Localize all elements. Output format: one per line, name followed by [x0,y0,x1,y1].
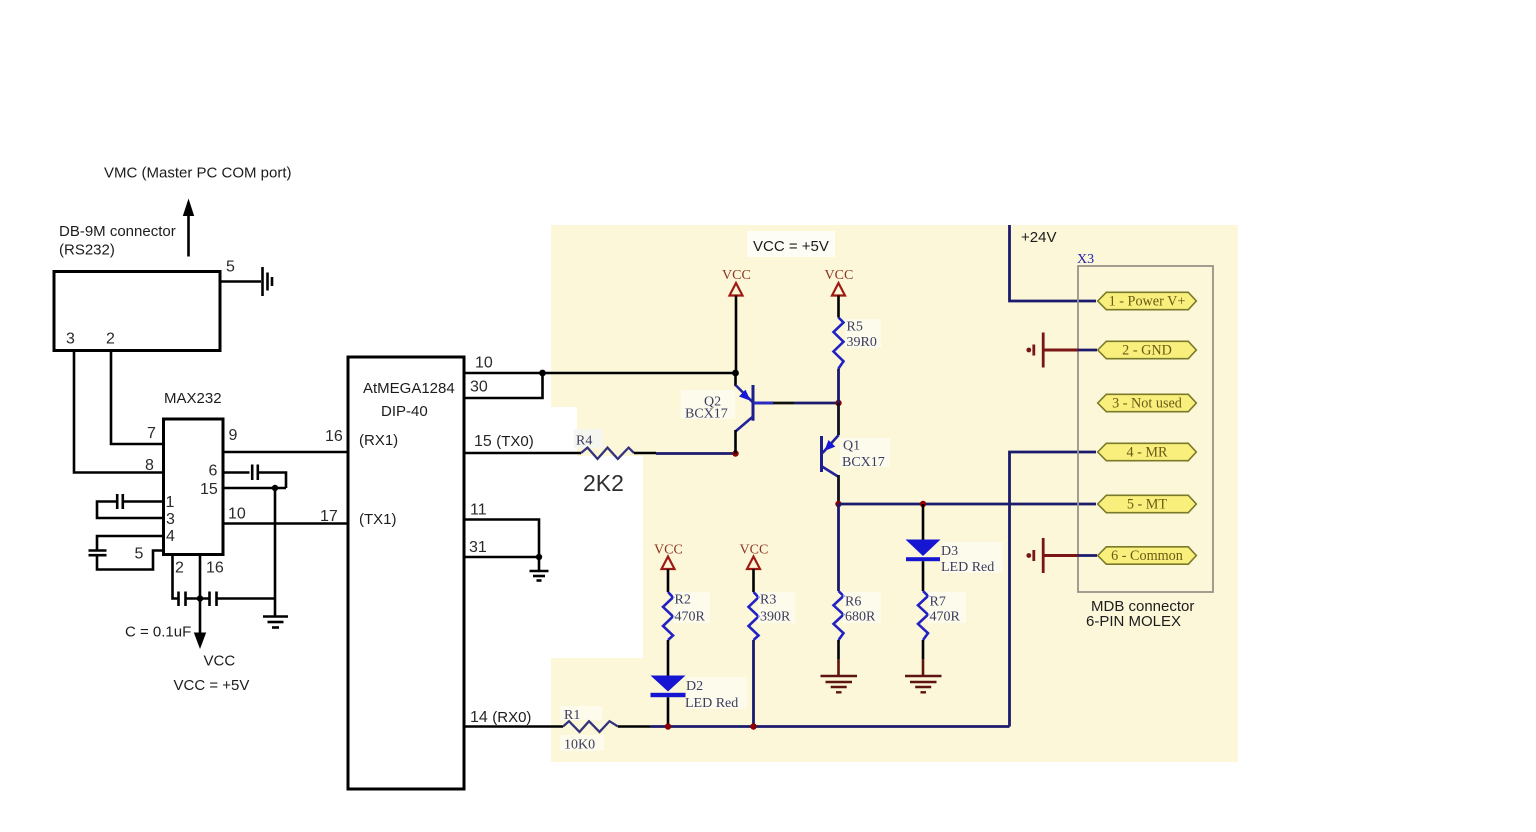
svg-text:14 (RX0): 14 (RX0) [470,709,531,726]
svg-text:C = 0.1uF: C = 0.1uF [125,624,191,641]
arrow to VMC [183,199,194,257]
svg-text:30: 30 [470,379,488,396]
annotation VCC = +5V (top) [747,231,835,257]
VCC down arrow (MAX232 supply) [194,599,206,650]
wire DB9 pin5 to ground [220,280,261,283]
MDB pin 4 MR [1098,443,1197,460]
LED D2 [651,676,686,727]
svg-text:470R: 470R [930,610,961,625]
svg-text:7: 7 [147,425,156,442]
power VCC symbol (Q2) [722,268,751,296]
resistor R5 [834,318,844,369]
wire Q2 base to node A [754,402,773,405]
wire to ground [274,488,277,616]
power VCC symbol (R2) [654,543,683,570]
wire Q1 collector to node C [837,475,840,504]
svg-text:MAX232: MAX232 [164,390,222,407]
transistor Q2 BCX17 [736,385,754,454]
svg-text:VCC: VCC [825,268,854,283]
svg-text:16: 16 [325,428,343,445]
wire cap row [186,597,210,600]
svg-text:(RX1): (RX1) [359,432,398,449]
wire cap row to ground rail [217,597,276,600]
svg-text:VCC: VCC [204,653,236,670]
svg-text:9: 9 [229,427,238,444]
wire AtMEGA pin10 to Q2 node [464,372,736,375]
power VCC symbol (R3) [740,543,769,570]
wire MAX232 pin10 to AtMEGA pin17 [223,522,348,525]
wire AtMEGA pin30 loop [464,373,543,398]
wire R2 to D2 [667,640,670,676]
LED D3 [906,504,941,591]
wire R7 to ground [922,640,925,659]
wire pin6 cap elbow [258,473,286,489]
svg-text:D2: D2 [686,679,703,694]
svg-text:5: 5 [135,546,144,563]
wire node C to R6 [837,504,840,591]
resistor R3 [749,592,759,640]
svg-text:R4: R4 [576,434,592,449]
value label R1 [560,706,602,720]
svg-text:3 - Not used: 3 - Not used [1112,396,1182,412]
wire MAX232 pin1 loop [123,500,164,503]
MDB pin 2 GND [1098,341,1197,358]
svg-text:Q1: Q1 [843,439,860,454]
wire DB9 pin2 to MAX232 pin7 [111,351,164,445]
connector DB-9M [54,272,220,351]
value label R5 [845,319,881,348]
wire VCC to R2 [667,569,670,592]
svg-text:5: 5 [226,259,235,276]
label Q2 [681,390,735,419]
resistor R2 [663,592,673,640]
ground (MAX232 pin15) [263,617,288,628]
wire MAX232 pin6 [223,471,250,474]
svg-text:2K2: 2K2 [583,470,624,496]
wire Q2 emitter lead [734,373,737,386]
ground (R7) [905,676,942,692]
capacitor C2 (pins 4-5) [89,551,107,556]
yellow highlight region [551,225,1238,762]
MDB pin 3 Not used [1098,394,1197,411]
wire bottom rail to MR riser [650,725,1010,728]
svg-text:X3: X3 [1077,252,1094,267]
svg-text:LED Red: LED Red [941,560,994,575]
svg-text:8: 8 [145,457,154,474]
connector X3 outline [1078,266,1213,592]
svg-text:15: 15 [200,481,218,498]
power VCC symbol (R5) [825,268,854,296]
svg-text:+24V: +24V [1021,229,1056,246]
wire R4 to node B [656,452,736,455]
svg-text:10: 10 [475,355,493,372]
svg-text:R2: R2 [675,593,691,608]
capacitor C3 (pin2 bottom) [179,592,186,607]
junction dot pins 10/30 [539,370,546,377]
svg-text:R7: R7 [930,595,946,610]
junction dot pin16/VCC [197,595,203,601]
svg-text:6: 6 [209,463,218,480]
svg-text:4: 4 [166,528,175,545]
svg-text:11: 11 [470,502,487,519]
svg-text:680R: 680R [845,610,876,625]
svg-text:17: 17 [320,508,338,525]
wire AtMEGA pin11 loop [464,520,539,558]
wire MAX232 pin4 loop [97,536,164,550]
wire MAX232 pin2 down [173,555,179,599]
svg-text:VCC = +5V: VCC = +5V [174,677,250,694]
resistor R1 [563,721,618,732]
node B junction dot [732,450,738,456]
wire AtMEGA pin15 TX0 to R4 [464,452,581,455]
wire VCC to R5 [837,296,840,318]
wire R3 to bottom rail [752,640,755,727]
svg-text:4 - MR: 4 - MR [1127,445,1169,461]
resistor R4 [581,448,634,459]
wire riser to MDB pin 4 MR [1010,452,1097,727]
svg-text:VCC = +5V: VCC = +5V [753,238,829,255]
MDB pin 1 Power V+ [1098,292,1197,309]
svg-text:(TX1): (TX1) [359,511,397,528]
svg-text:R6: R6 [845,595,861,610]
resistor R7 [918,591,928,640]
svg-text:DIP-40: DIP-40 [381,403,428,420]
svg-text:1: 1 [166,494,175,511]
wire R1 right (black part) [618,725,650,728]
wire +24V feed [1010,225,1097,301]
ground (DB9 pin 5) [263,267,273,296]
junction dot pin15 [272,485,278,491]
svg-text:1 - Power V+: 1 - Power V+ [1109,294,1186,310]
capacitor C1 (pins 1-3) [117,494,123,509]
svg-text:R1: R1 [564,708,580,723]
label D2 [687,677,747,709]
svg-text:31: 31 [469,539,487,556]
ground (MDB pin 2) [1026,333,1097,368]
capacitor C4 (pin16 bottom) [210,592,217,607]
svg-text:VMC (Master PC COM port): VMC (Master PC COM port) [104,165,292,182]
wire R5 to node A [837,369,840,404]
svg-text:D3: D3 [941,544,958,559]
resistor R6 [834,591,844,640]
wire node A to Q1 emitter [837,403,840,435]
transistor Q1 BCX17 [822,435,839,477]
wire VCC to R3 [752,569,755,592]
svg-text:VCC: VCC [722,268,751,283]
MDB pin 5 MT [1098,495,1197,512]
value label R3 [758,592,795,623]
wire VCC to node (10-line) [735,296,738,374]
junction dot D2/rail [665,723,671,729]
svg-text:5 - MT: 5 - MT [1127,497,1168,513]
svg-text:2 - GND: 2 - GND [1122,343,1172,359]
label D3 [943,542,1003,573]
node C junction dot [835,501,841,507]
svg-text:6-PIN MOLEX: 6-PIN MOLEX [1086,613,1181,630]
label Q1 [840,438,890,467]
svg-text:15 (TX0): 15 (TX0) [474,433,534,450]
wire to ground [538,557,541,571]
IC U1 AtMEGA1284 DIP-40 [348,357,464,789]
svg-text:10K0: 10K0 [564,738,595,753]
wire MAX232 pin9 to AtMEGA pin16 [223,451,348,454]
svg-text:AtMEGA1284: AtMEGA1284 [363,380,455,397]
svg-text:DB-9M connector: DB-9M connector [59,223,176,240]
wire AtMEGA pin14 RX0 to R1 [464,725,563,728]
ground (MDB pin 6) [1026,538,1097,573]
wire pin16 down [199,555,202,599]
wire node C to MDB pin 5 MT [839,503,1097,506]
svg-text:R3: R3 [760,593,776,608]
svg-text:2: 2 [106,331,115,348]
wire AtMEGA pin31 [464,556,539,559]
wire R4 right (black part) [634,452,656,455]
junction dot 10-line / Q2 emitter [732,370,739,377]
svg-text:BCX17: BCX17 [685,407,728,422]
svg-text:R5: R5 [847,320,863,335]
svg-text:2: 2 [175,560,184,577]
svg-text:BCX17: BCX17 [842,455,885,470]
white notch in yellow region [551,407,577,658]
capacitor C5 (pin6-15) [252,465,258,481]
svg-text:39R0: 39R0 [847,335,877,350]
junction dot R3/rail [750,723,756,729]
svg-text:3: 3 [166,511,175,528]
ground (R6) [821,676,858,692]
svg-text:10: 10 [228,506,246,523]
value label R7 [928,592,966,623]
svg-text:3: 3 [66,331,75,348]
svg-text:390R: 390R [760,610,791,625]
value label R6 [843,592,881,623]
wire R6 to ground [837,640,840,659]
junction dot pins 11/31 [536,554,542,560]
svg-text:LED Red: LED Red [685,696,738,711]
value label R2 [673,592,710,623]
node D junction dot (D3) [920,501,926,507]
wire MAX232 pin15 [223,487,286,490]
svg-text:6 - Common: 6 - Common [1111,548,1183,564]
svg-text:(RS232): (RS232) [59,242,115,259]
MDB pin 6 Common [1098,547,1197,564]
svg-text:470R: 470R [675,610,706,625]
node A junction dot [835,400,841,406]
svg-text:16: 16 [206,560,224,577]
ground (AtMEGA pins 11/31) [530,571,549,581]
wire DB9 pin3 to MAX232 pin8 [74,351,164,473]
